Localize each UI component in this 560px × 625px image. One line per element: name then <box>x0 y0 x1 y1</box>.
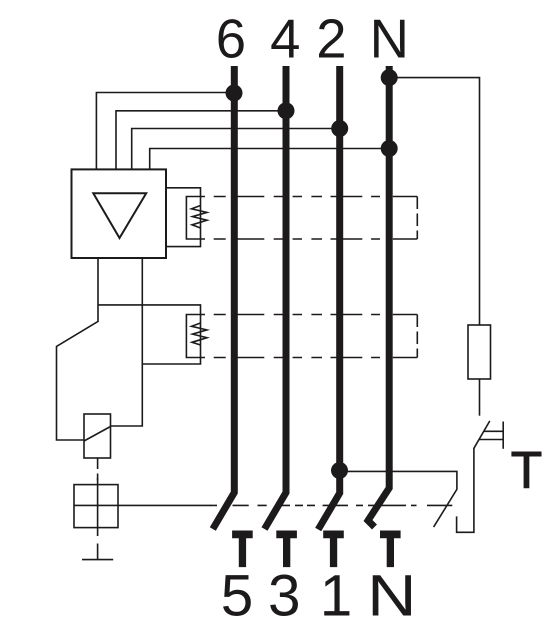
svg-text:3: 3 <box>268 564 301 625</box>
svg-text:4: 4 <box>270 9 300 70</box>
svg-text:5: 5 <box>221 564 254 625</box>
svg-text:1: 1 <box>320 564 353 625</box>
svg-text:2: 2 <box>316 9 346 70</box>
svg-text:T: T <box>511 441 542 499</box>
svg-text:N: N <box>367 563 416 625</box>
svg-text:6: 6 <box>216 9 246 70</box>
svg-text:N: N <box>370 9 409 70</box>
